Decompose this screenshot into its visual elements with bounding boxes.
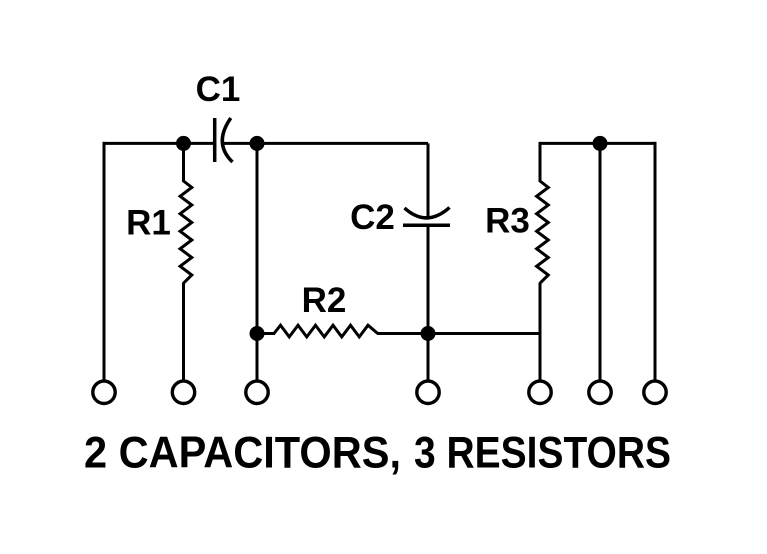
svg-text:3 RESISTORS: 3 RESISTORS	[414, 428, 671, 477]
svg-text:C1: C1	[196, 70, 241, 109]
svg-text:R2: R2	[302, 281, 347, 320]
resistor R2	[274, 325, 378, 337]
wire C2 top	[427, 143, 430, 216]
wire C1 right to corner	[224, 142, 428, 145]
wire C2 bottom	[427, 227, 430, 334]
capacitor C2 curved plate	[405, 208, 450, 218]
capacitor C1 flat plate	[213, 118, 217, 162]
junction dot node E (R2 right / C2 bottom)	[421, 326, 436, 341]
terminal 7	[644, 381, 666, 403]
terminal 6	[589, 381, 611, 403]
svg-text:R3: R3	[485, 201, 530, 240]
wire R3 bottom	[539, 283, 542, 382]
wire R3 top	[539, 142, 542, 182]
junction dot node B (C1 right)	[250, 136, 265, 151]
terminal 4	[417, 381, 439, 403]
wire R1 top hang	[182, 143, 185, 182]
wire R1 bottom	[182, 283, 185, 382]
resistor R3	[537, 181, 549, 283]
terminal 1	[93, 381, 115, 403]
svg-text:2 CAPACITORS,: 2 CAPACITORS,	[84, 428, 401, 477]
wire node-4 to terminal	[427, 334, 430, 381]
wire top right horizontal	[540, 142, 657, 145]
terminal 5	[529, 381, 551, 403]
terminal 2	[172, 381, 194, 403]
svg-text:R1: R1	[126, 204, 171, 243]
junction dot node D (R2 left)	[250, 326, 265, 341]
wire R2 right to R3	[377, 332, 540, 335]
junction dot node A (R1 top)	[176, 136, 191, 151]
resistor R1	[180, 181, 192, 283]
wire R2 left	[257, 332, 275, 335]
junction dot node C (top right)	[593, 136, 608, 151]
capacitor C1 curved plate	[222, 118, 232, 162]
svg-text:C2: C2	[350, 198, 395, 237]
wire far right vertical	[654, 142, 657, 382]
wire node-5 vertical	[599, 143, 602, 381]
capacitor C2 flat plate	[403, 224, 450, 228]
wire node-2 vertical	[256, 143, 259, 381]
wire top left horizontal	[103, 142, 214, 145]
terminal 3	[246, 381, 268, 403]
wire left vertical	[103, 142, 106, 382]
